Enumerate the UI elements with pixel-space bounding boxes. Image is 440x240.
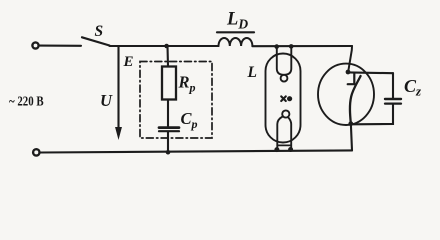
lamp base line [277, 144, 291, 146]
terminal top-left [32, 42, 38, 48]
capacitor Cp [159, 126, 179, 129]
wire Rp to Cp [167, 100, 169, 127]
node lamp top right [289, 44, 294, 49]
svg-text:LD: LD [226, 9, 248, 31]
svg-text:Rp: Rp [178, 73, 196, 95]
starter fixed electrode [348, 74, 355, 85]
wire CZ right down [392, 73, 394, 98]
terminal bottom-left [33, 149, 39, 155]
starter bottom contact node [348, 121, 353, 126]
lamp bottom electrode bead [282, 110, 289, 117]
svg-text:Cp: Cp [181, 109, 198, 131]
wire rail to Rp [166, 46, 169, 67]
capacitor CZ [385, 98, 401, 100]
inductor LD core bar [217, 31, 254, 33]
wire CZ bottom [352, 105, 393, 125]
node lamp bottom right [288, 147, 293, 152]
wire top rail right [252, 45, 352, 47]
svg-text:L: L [247, 64, 257, 81]
lamp top electrode [277, 47, 292, 75]
wire bottom rail [41, 150, 353, 152]
wire starter bottom to rail [351, 125, 352, 151]
starter bimetal electrode [350, 76, 361, 123]
node on top rail for Rp branch [164, 44, 169, 49]
box E (dash-dot) [140, 62, 212, 139]
svg-text:Cz: Cz [404, 76, 422, 99]
resistor Rp [162, 67, 176, 100]
starter top contact node [346, 70, 351, 75]
voltage arrow U [117, 47, 119, 130]
wire starter to CZ top [349, 71, 394, 74]
node on bottom rail [166, 150, 171, 155]
starter glow bulb [318, 64, 374, 125]
svg-text:S: S [95, 23, 104, 40]
lamp L tube [266, 54, 301, 143]
svg-text:E: E [123, 54, 134, 70]
node lamp bottom left [274, 147, 279, 152]
wire Cp to bottom rail [167, 132, 169, 152]
switch S blade [82, 37, 110, 45]
lamp dot mark [287, 96, 292, 101]
svg-text:~ 220 В: ~ 220 В [9, 93, 44, 108]
lamp cross mark [281, 96, 286, 101]
wire terminal to switch [40, 45, 81, 47]
node lamp top left [274, 44, 279, 49]
inductor LD coil [219, 38, 253, 46]
lamp bottom electrode [277, 117, 291, 151]
wire top rail left [110, 45, 219, 47]
wire top rail corner down to starter [348, 46, 352, 71]
svg-text:U: U [100, 91, 113, 110]
lamp top electrode bead [281, 75, 288, 82]
